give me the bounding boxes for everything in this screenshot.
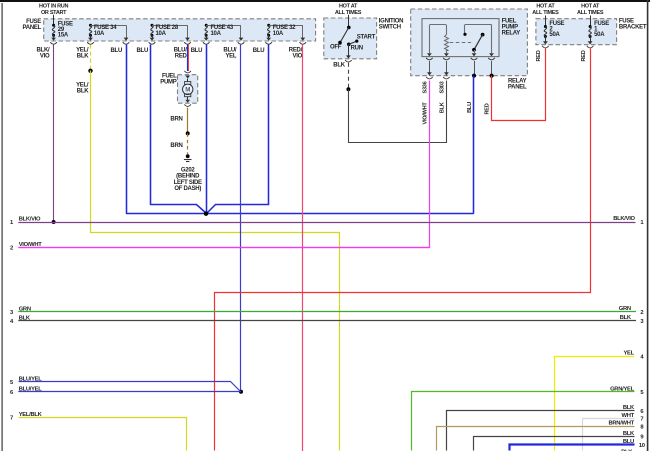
svg-text:GRN: GRN: [619, 306, 631, 312]
svg-text:10A: 10A: [94, 31, 105, 37]
wire BLU/YEL fuse 43 branch: [240, 45, 242, 392]
left wire 1 BLK/VIO: [10, 217, 635, 227]
svg-text:VIO: VIO: [40, 53, 50, 59]
svg-text:2: 2: [10, 246, 13, 252]
fuse 2 output connector: [542, 41, 549, 48]
wire BLU/RED fuse 28 branch to fuel pump: [188, 45, 189, 71]
feed wire hot in run: [53, 15, 55, 25]
svg-text:7: 7: [10, 416, 13, 422]
svg-text:BLK: BLK: [620, 315, 632, 321]
wire YEL/BLK from fuse 34 to bottom: [91, 71, 340, 451]
relay pin wires to panel edge: [430, 61, 492, 76]
splice dot YEL/BLK: [88, 69, 92, 73]
fuse 28 10A: [151, 24, 188, 39]
left wire 4 BLK full width: [10, 316, 636, 326]
svg-text:OF DASH): OF DASH): [174, 186, 201, 192]
fuse 28 output connectors: [149, 38, 191, 45]
ignition switch output connector: [345, 55, 352, 62]
svg-text:GRN/YEL: GRN/YEL: [610, 386, 635, 392]
svg-text:BLU: BLU: [467, 102, 473, 113]
relay pin 1 panel connector: [426, 72, 433, 79]
wire VIO/WHT relay pin1: [19, 81, 430, 248]
splice dot ignition BLK: [346, 87, 350, 91]
wire BLU d fuse 32: [207, 45, 269, 214]
svg-text:VIO: VIO: [293, 53, 303, 59]
svg-text:PANEL: PANEL: [23, 25, 42, 31]
page border top: [0, 0, 650, 2]
svg-text:VIO/WHT: VIO/WHT: [423, 102, 429, 125]
svg-text:YEL: YEL: [225, 53, 236, 59]
fuse 1 output connector: [587, 41, 594, 48]
ignition switch S1: [338, 15, 358, 56]
wire BLU bus outer horizontal: [126, 213, 474, 215]
junction dot relay pin 3: [472, 74, 476, 78]
svg-text:SWITCH: SWITCH: [379, 24, 401, 30]
svg-text:BRN: BRN: [170, 143, 182, 149]
svg-text:ALL TIMES: ALL TIMES: [577, 10, 604, 16]
svg-text:BLK: BLK: [333, 63, 345, 69]
svg-text:RED: RED: [485, 103, 491, 114]
right wire 6 BLK: [447, 405, 645, 451]
svg-text:BLK/VIO: BLK/VIO: [613, 216, 635, 222]
right wire 7 WHT: [583, 413, 644, 451]
svg-text:M: M: [185, 87, 190, 94]
svg-text:HOT AT: HOT AT: [339, 4, 358, 10]
svg-text:HOT IN RUN: HOT IN RUN: [39, 4, 68, 10]
svg-text:BLU: BLU: [253, 48, 265, 54]
fuse 32 output connectors: [265, 38, 306, 45]
svg-text:S303: S303: [440, 81, 446, 93]
right label wire GRN 2: [619, 306, 644, 316]
svg-text:START: START: [357, 34, 376, 40]
wire BRN fuel pump to splice: [187, 108, 189, 134]
right label wire 1 BLK/VIO: [613, 216, 644, 226]
page border left: [1, 3, 2, 451]
fuse 34 10A: [89, 24, 127, 39]
fuse panel box: [44, 19, 316, 41]
svg-text:10A: 10A: [156, 31, 167, 37]
svg-text:BRN/WHT: BRN/WHT: [608, 421, 634, 427]
svg-text:BLK: BLK: [623, 405, 635, 411]
splice dot BLK/VIO on line 1: [52, 220, 56, 224]
svg-text:RELAY: RELAY: [502, 30, 521, 36]
svg-text:LEFT SIDE: LEFT SIDE: [174, 180, 202, 186]
svg-text:BLU: BLU: [623, 439, 634, 445]
svg-text:ALL TIMES: ALL TIMES: [532, 10, 559, 16]
wire BRN dashed to ground: [187, 133, 189, 154]
wire RED/VIO fuse 32 branch: [302, 45, 304, 451]
svg-text:BLU: BLU: [191, 48, 203, 54]
relay internal pin connectors: [426, 53, 495, 60]
svg-text:7: 7: [640, 417, 643, 423]
svg-text:RED: RED: [581, 50, 587, 61]
svg-text:RED: RED: [536, 50, 542, 61]
svg-text:OR START: OR START: [41, 10, 67, 16]
svg-text:BRACKET: BRACKET: [619, 24, 647, 30]
svg-text:15A: 15A: [58, 33, 69, 39]
wire RED fuse 1 to bottom: [215, 49, 591, 451]
splice dot BLU/YEL: [239, 390, 243, 394]
fuse 2 50A: [544, 16, 547, 42]
relay K1 internal: [422, 19, 499, 57]
svg-text:10: 10: [639, 443, 645, 449]
junction dot relay pin 4: [490, 74, 494, 78]
svg-text:PUMP: PUMP: [160, 80, 176, 86]
splice dot blue bus: [204, 212, 208, 216]
svg-text:G202: G202: [181, 168, 196, 174]
fuse 1 50A: [589, 16, 592, 42]
right label wire BLK 3: [620, 315, 645, 325]
fuel pump bottom connector: [184, 100, 191, 107]
svg-text:BLK: BLK: [77, 53, 89, 59]
fuse 34 output connectors: [87, 38, 129, 45]
right wire 10 BLU: [510, 439, 645, 451]
right wire 8 BRN/WHT: [437, 421, 645, 451]
svg-text:WHT: WHT: [622, 413, 635, 419]
wire BLU relay pin3: [473, 76, 475, 214]
left wire 5 BLU/YEL: [10, 376, 240, 391]
right wire 9 BLK: [474, 431, 645, 451]
svg-text:BLK: BLK: [440, 102, 446, 113]
svg-text:HOT AT: HOT AT: [536, 4, 555, 10]
svg-text:10A: 10A: [211, 31, 222, 37]
right wire 5 GRN/YEL: [412, 386, 645, 450]
svg-text:50A: 50A: [594, 32, 605, 38]
fuse bracket box: [536, 19, 617, 45]
splice dot BRN: [186, 131, 190, 135]
wire BLK ignition dashed: [348, 63, 350, 90]
fuse 32 10A: [267, 24, 303, 39]
svg-text:YEL: YEL: [623, 351, 634, 357]
wire RED relay pin4 to fuse 2: [492, 49, 546, 121]
svg-text:RED: RED: [175, 53, 188, 59]
wire BLU b fuse 28: [151, 45, 207, 214]
left wire 7 YEL/BLK: [10, 412, 186, 450]
svg-text:2: 2: [640, 310, 643, 316]
svg-text:BLK: BLK: [77, 88, 89, 94]
left wire 6 BLU/YEL: [10, 386, 241, 396]
svg-text:S336: S336: [423, 81, 429, 93]
ground G202: [184, 154, 192, 161]
svg-text:50A: 50A: [549, 32, 560, 38]
fuse 43 output connectors: [203, 38, 244, 45]
svg-text:BRN: BRN: [170, 117, 182, 123]
wire YEL/BLK dashed segment: [90, 45, 92, 71]
svg-text:(BEHIND: (BEHIND: [176, 174, 200, 180]
svg-text:OFF: OFF: [330, 45, 342, 51]
svg-text:PANEL: PANEL: [508, 85, 527, 91]
svg-text:10A: 10A: [273, 31, 284, 37]
svg-text:RUN: RUN: [351, 46, 363, 52]
svg-text:BLU: BLU: [111, 48, 123, 54]
svg-text:BLU: BLU: [137, 48, 149, 54]
fuel pump relay outer box: [411, 9, 528, 76]
wire BLK ignition to relay: [349, 81, 447, 143]
wire BLK/VIO from fuse 29: [53, 45, 55, 222]
ignition switch box: [324, 18, 377, 59]
wire BLU a fuse 34 branch: [126, 45, 128, 214]
svg-text:BLK: BLK: [623, 431, 635, 437]
right wire 4 YEL: [555, 351, 645, 451]
page border right: [647, 0, 649, 451]
fuse 29 output connector: [50, 38, 57, 45]
svg-text:BLK/VIO: BLK/VIO: [19, 217, 41, 223]
fuse 29 15A: [52, 24, 55, 39]
relay pin 2 panel connector: [443, 72, 450, 79]
fuel pump top connector: [184, 71, 191, 79]
left wire 2 VIO/WHT: [10, 242, 429, 252]
fuse 43 10A: [205, 24, 241, 39]
fuel pump motor M1: [183, 79, 193, 100]
wire BLU c fuse 43: [206, 45, 208, 214]
left wire 3 GRN full width: [10, 306, 636, 316]
fuel pump box: [178, 75, 198, 104]
svg-text:HOT AT: HOT AT: [581, 4, 600, 10]
